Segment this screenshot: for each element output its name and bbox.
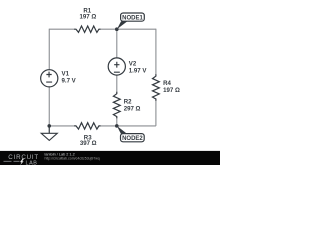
wire top left horizontal (49, 28, 75, 30)
resistor R2 (113, 92, 120, 119)
junction dot ground node (47, 124, 51, 128)
svg-text:V1: V1 (62, 71, 70, 78)
resistor R3 (74, 123, 100, 129)
wire left rail upper (48, 29, 50, 70)
resistor R4 (153, 74, 160, 101)
junction dot node1 (115, 27, 119, 31)
wire right rail lower (155, 100, 157, 126)
svg-text:http://circuitlab.com/c4c6z53u: http://circuitlab.com/c4c6z53uj97wq (45, 156, 100, 160)
svg-text:297 Ω: 297 Ω (124, 105, 141, 112)
junction dot node2 (115, 124, 119, 128)
svg-text:V2: V2 (129, 60, 137, 67)
wire bottom mid (100, 125, 156, 127)
svg-text:9.7 V: 9.7 V (62, 78, 77, 85)
resistor R1 (74, 26, 100, 32)
svg-text:NODE1: NODE1 (122, 15, 143, 21)
svg-text:197 Ω: 197 Ω (80, 13, 97, 20)
node NODE1 flag (117, 21, 128, 29)
voltage source V2 (108, 58, 125, 75)
node NODE2 flag (117, 126, 127, 134)
wire right rail upper (155, 29, 157, 75)
svg-text:NODE2: NODE2 (122, 136, 143, 142)
svg-text:1.97 V: 1.97 V (129, 68, 148, 75)
footer logo bolt (20, 159, 24, 165)
ground (48, 126, 50, 133)
svg-text:LAB: LAB (26, 160, 38, 165)
wire middle rail lower (116, 118, 118, 126)
wire left rail lower (48, 87, 50, 126)
wire middle rail upper (116, 29, 118, 58)
footer logo wire dashes (4, 160, 20, 162)
svg-text:397 Ω: 397 Ω (80, 140, 97, 147)
wire top right horizontal (100, 28, 156, 30)
footer bar (0, 151, 220, 165)
wire bottom left (49, 125, 75, 127)
voltage source V1 (41, 70, 58, 87)
wire middle rail mid (116, 75, 118, 92)
svg-text:197 Ω: 197 Ω (163, 87, 180, 94)
